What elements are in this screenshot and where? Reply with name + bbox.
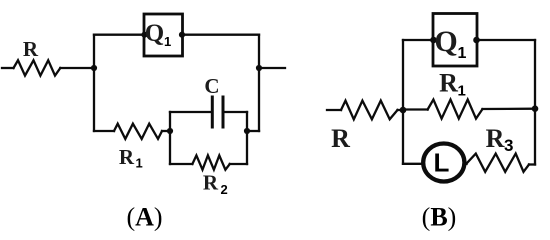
wire B middle branch left	[403, 108, 428, 110]
svg-text:R: R	[203, 171, 219, 195]
wire B right rail	[534, 40, 536, 165]
wire A top branch left	[94, 34, 144, 36]
svg-text:R: R	[119, 145, 135, 169]
wire loop bottom right	[230, 163, 247, 165]
node A box left pin	[141, 32, 147, 38]
resistor R3 (B)	[467, 154, 530, 172]
node A output junction	[256, 65, 262, 71]
resistor R (A)	[14, 60, 61, 75]
wire B top branch right	[477, 39, 535, 41]
wire loop to right rail jog	[247, 130, 259, 132]
wire B top branch left	[403, 39, 433, 41]
svg-text:R: R	[439, 69, 458, 98]
svg-text:Q: Q	[145, 20, 164, 47]
wire L to R3	[464, 163, 466, 165]
node A input junction	[91, 65, 97, 71]
node B box right pin	[473, 37, 480, 44]
svg-text:1: 1	[136, 156, 143, 171]
svg-text:C: C	[204, 74, 219, 98]
node B box left pin	[430, 37, 437, 44]
wire A input stub	[2, 67, 14, 69]
wire B bottom branch left	[403, 163, 423, 165]
inductor meter L circle	[423, 144, 464, 182]
node A loop right junction	[244, 128, 250, 134]
wire loop right side	[246, 112, 248, 164]
wire A output stub	[259, 67, 285, 69]
svg-text:1: 1	[164, 34, 171, 49]
wire loop bottom left	[170, 163, 192, 165]
wire R3 to right rail	[529, 163, 535, 165]
resistor R1 (A)	[114, 124, 162, 139]
op-amp box Q1 (B)	[433, 14, 477, 67]
svg-text:R: R	[486, 124, 505, 153]
wire A left rail	[93, 35, 95, 131]
svg-text:(A): (A)	[126, 203, 162, 232]
svg-text:L: L	[434, 148, 450, 178]
node B input junction	[400, 107, 407, 114]
resistor R2 (A)	[192, 155, 229, 169]
svg-text:R: R	[331, 124, 350, 153]
wire R1 to loop node	[162, 130, 170, 132]
wire loop left side	[169, 112, 171, 164]
node A loop left junction	[167, 128, 173, 134]
wire B middle branch right	[482, 108, 535, 111]
wire loop top left lead	[170, 111, 211, 113]
capacitor C right plate	[222, 97, 225, 127]
resistor R (B)	[341, 101, 398, 120]
svg-text:1: 1	[458, 45, 467, 62]
svg-text:3: 3	[504, 136, 513, 155]
wire B input to node	[398, 109, 404, 111]
wire A right rail	[258, 35, 260, 131]
wire A bottom branch left	[94, 130, 114, 132]
svg-text:Q: Q	[434, 25, 457, 58]
wire B left rail	[402, 40, 404, 164]
svg-text:2: 2	[221, 182, 228, 197]
op-amp box Q1 (A)	[144, 14, 183, 56]
svg-text:1: 1	[458, 83, 466, 100]
svg-text:(B): (B)	[422, 203, 457, 232]
node B middle right junction	[532, 105, 539, 112]
resistor R1 (B)	[428, 100, 483, 119]
wire A top branch right	[182, 34, 259, 36]
svg-text:R: R	[23, 37, 39, 61]
node A box right pin	[179, 32, 185, 38]
wire A input to node	[60, 67, 94, 69]
wire B input stub	[327, 109, 341, 111]
capacitor C left plate	[211, 97, 214, 127]
wire loop top right lead	[225, 111, 247, 113]
